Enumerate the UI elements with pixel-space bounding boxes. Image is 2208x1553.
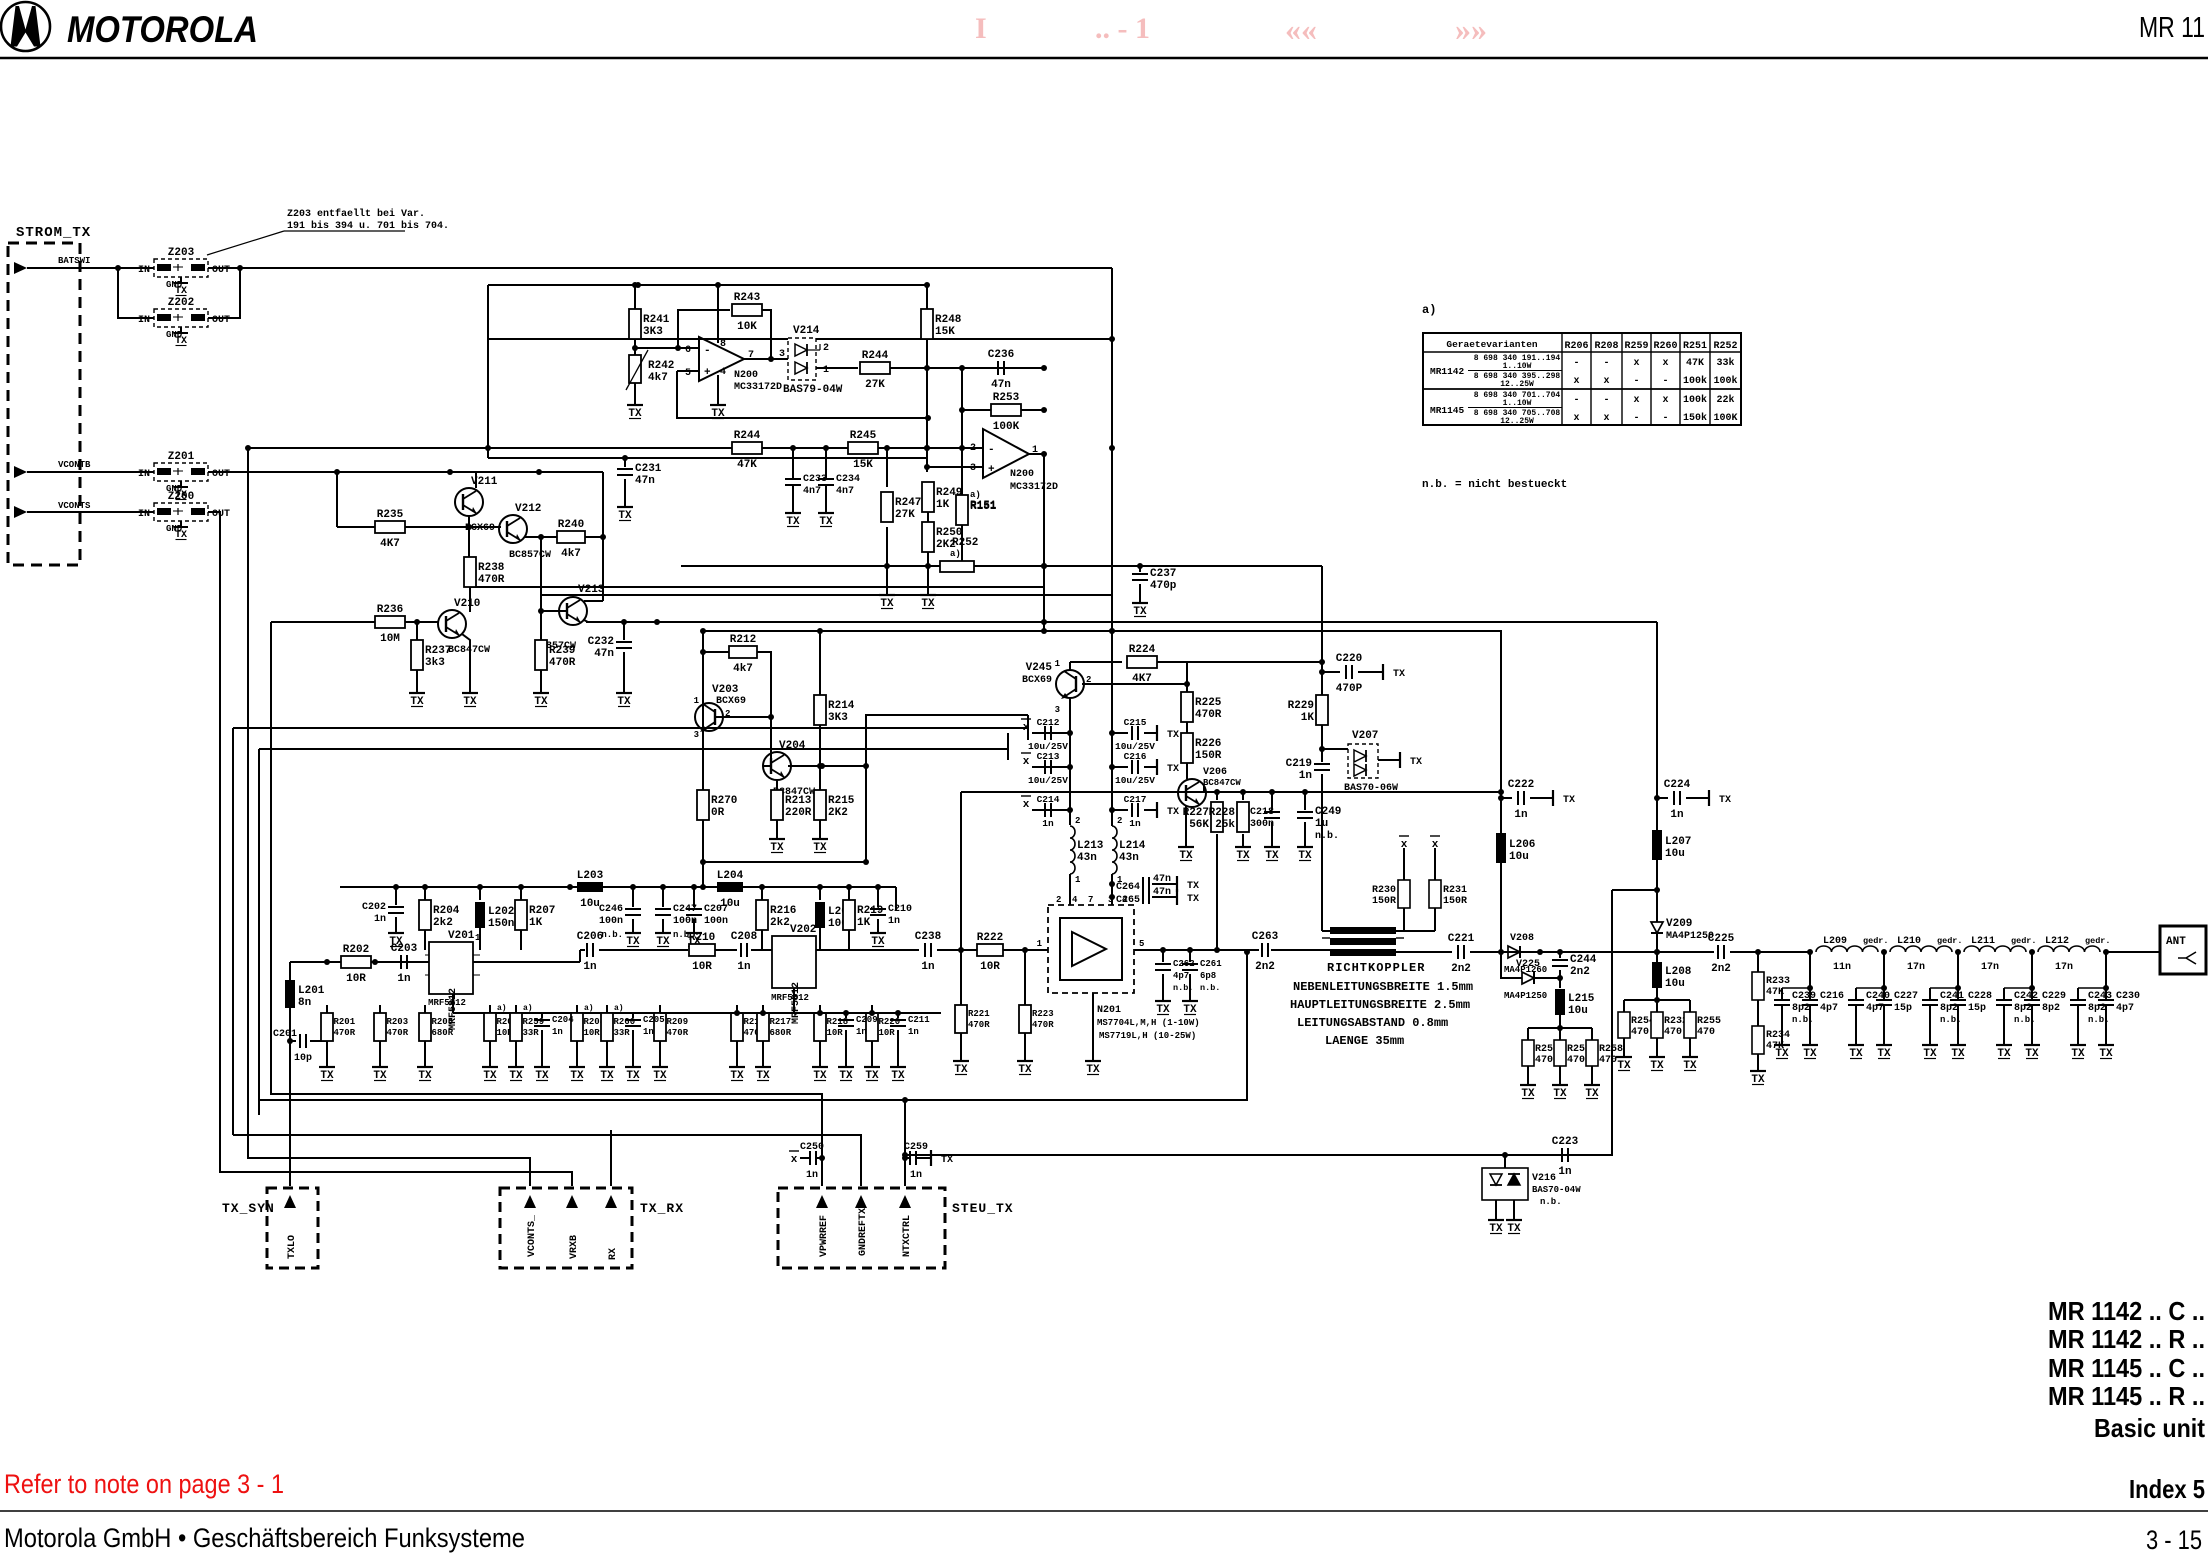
svg-text:««: ««: [1285, 11, 1317, 47]
resistor R206: [484, 1005, 518, 1062]
svg-text:L207: L207: [1665, 836, 1691, 848]
svg-text:4p7: 4p7: [1820, 1003, 1838, 1014]
wire R230 R231 bottom: [1403, 908, 1405, 931]
inductor L206: [1496, 833, 1535, 863]
svg-text:4p7: 4p7: [1173, 971, 1189, 981]
ground TX under R256: [1520, 1080, 1536, 1100]
ground TX right of C216: [1152, 759, 1179, 775]
svg-text:150R: 150R: [1195, 750, 1222, 762]
svg-text:470p: 470p: [1150, 580, 1177, 592]
svg-text:C230: C230: [2116, 991, 2140, 1002]
arrow TXLO: [284, 1195, 296, 1208]
svg-text:BATSWI: BATSWI: [58, 256, 90, 266]
svg-text:R253: R253: [993, 392, 1020, 404]
wire VCONTS in: [27, 511, 154, 513]
svg-text:R244: R244: [734, 430, 761, 442]
svg-text:R210: R210: [689, 932, 715, 944]
transistor V206: [1178, 767, 1241, 807]
resistor R254: [1618, 1000, 1655, 1052]
svg-text:R259: R259: [1624, 341, 1648, 352]
svg-text:TX_SYN: TX_SYN: [222, 1201, 275, 1216]
svg-text:V214: V214: [793, 325, 820, 337]
svg-text:a): a): [1422, 303, 1436, 317]
resistor R257: [1554, 1028, 1591, 1080]
wire Z202 out: [208, 268, 240, 318]
svg-text:R207: R207: [529, 905, 555, 917]
inductor L202: [475, 902, 514, 930]
svg-text:2: 2: [1117, 816, 1122, 826]
resistor R208: [571, 1005, 605, 1062]
svg-text:MC33172D: MC33172D: [1010, 482, 1058, 493]
svg-text:1: 1: [1055, 659, 1061, 669]
svg-text:x: x: [1603, 413, 1609, 424]
ground TX under R239: [533, 688, 549, 708]
wire V211 emitter: [468, 516, 470, 527]
wire R221 drop: [960, 950, 962, 1005]
wire C225 right: [1730, 951, 1810, 953]
svg-text:TX: TX: [941, 1155, 953, 1166]
wire VCONTB row: [208, 471, 603, 473]
svg-text:Z203 entfaellt bei Var.: Z203 entfaellt bei Var.: [287, 208, 425, 220]
wire R204 down: [424, 930, 426, 950]
svg-text:1n: 1n: [910, 1170, 922, 1181]
ground TX under C227: [1876, 1040, 1892, 1060]
wire V213 base drop: [540, 537, 542, 611]
svg-text:R208: R208: [1594, 341, 1618, 352]
svg-text:R222: R222: [977, 932, 1003, 944]
thermistor R242: [626, 348, 674, 400]
svg-text:C202: C202: [362, 902, 386, 913]
capacitor C225: [1708, 933, 1735, 975]
svg-text:OUT: OUT: [212, 315, 230, 326]
inductor L214: [1112, 826, 1146, 874]
svg-text:4: 4: [720, 367, 726, 378]
svg-text:MR 1142 .. R ..: MR 1142 .. R ..: [2048, 1324, 2205, 1354]
svg-text:10R: 10R: [827, 1028, 844, 1038]
hybrid transistor V201: [425, 930, 481, 1030]
capacitor C229: [2024, 988, 2066, 1040]
svg-text:4K7: 4K7: [1132, 673, 1152, 685]
wire R244a out: [890, 367, 1044, 369]
svg-text:R238: R238: [478, 562, 505, 574]
wire L201 down: [289, 1008, 291, 1041]
resistor R209: [654, 1005, 689, 1062]
svg-text:NEBENLEITUNGSBREITE 1.5mm: NEBENLEITUNGSBREITE 1.5mm: [1293, 980, 1473, 994]
resistor R255: [1684, 1000, 1721, 1052]
wire C238 right: [937, 949, 977, 951]
ground TX under C231: [617, 502, 633, 522]
svg-text:STEU_TX: STEU_TX: [952, 1201, 1014, 1216]
svg-text:Z200: Z200: [168, 491, 194, 503]
svg-text:V202: V202: [790, 924, 816, 936]
svg-text:n.b.: n.b.: [1315, 830, 1339, 842]
wire R224 right: [1157, 662, 1187, 684]
wire L213 down: [1069, 874, 1071, 900]
resistor R244: [860, 350, 890, 391]
capacitor C262: [1162, 950, 1164, 962]
wire R223 drop: [1024, 950, 1026, 1005]
wire R253 row: [962, 409, 991, 411]
ground TX under C228: [1950, 1040, 1966, 1060]
wire C215 gnd: [1144, 732, 1152, 734]
svg-text:C263: C263: [1252, 931, 1279, 943]
feedthrough filter Z201: [138, 451, 230, 494]
inductor L205: [819, 887, 821, 900]
svg-text:3 - 15: 3 - 15: [2146, 1525, 2202, 1553]
capacitor C238: [915, 931, 942, 973]
wire X1 stubs: [1403, 848, 1405, 880]
ground TX under R211: [729, 1062, 745, 1082]
wire R237 drop: [416, 622, 418, 640]
capacitor C216: [1802, 988, 1844, 1040]
resistor R211: [731, 1005, 766, 1062]
svg-text:C264: C264: [1116, 882, 1140, 893]
svg-text:TX: TX: [1167, 730, 1179, 741]
svg-text:1n: 1n: [888, 916, 900, 927]
svg-text:10p: 10p: [294, 1053, 312, 1064]
wire C224 row: [1657, 797, 1668, 799]
svg-text:BC857CW: BC857CW: [509, 550, 551, 561]
resistor R252: [940, 537, 978, 572]
wire C205 gnd: [632, 1030, 634, 1062]
resistor R218: [814, 1005, 848, 1062]
ground TX of Z201: [174, 484, 188, 501]
svg-text:1K: 1K: [529, 917, 543, 929]
svg-text:n.b. = nicht bestueckt: n.b. = nicht bestueckt: [1422, 479, 1567, 491]
svg-text:47n: 47n: [594, 648, 614, 660]
resistor R226: [1181, 733, 1222, 763]
svg-text:1n: 1n: [856, 1027, 867, 1037]
wire pin3 row: [928, 466, 983, 468]
resistor R201: [321, 1005, 356, 1062]
resistor R260: [601, 1005, 635, 1062]
wire pin4: [717, 375, 719, 400]
svg-text:12..25W: 12..25W: [1500, 380, 1534, 389]
inductor L204: [717, 870, 744, 910]
svg-text:TX: TX: [1719, 795, 1731, 806]
resistor R259: [510, 1005, 544, 1062]
wire bus NTXCTRL: [259, 1100, 905, 1186]
capacitor C214: [1037, 794, 1060, 829]
ground TX right of C265: [1172, 889, 1199, 905]
capacitor C206: [577, 931, 603, 973]
capacitor C201: [300, 1034, 306, 1048]
wire V207 right: [1378, 759, 1395, 761]
wire VCONTS bus: [208, 512, 572, 1186]
svg-text:MR1145: MR1145: [1430, 405, 1465, 416]
ground TX under V216 left: [1488, 1215, 1504, 1235]
svg-text:MRF5812: MRF5812: [428, 998, 466, 1008]
resistor R204: [419, 900, 460, 930]
resistor R247: [881, 492, 921, 522]
svg-text:n.b.: n.b.: [1200, 983, 1220, 993]
capacitor C249: [1297, 806, 1341, 830]
svg-text:x: x: [1023, 799, 1030, 811]
svg-text:BCX69: BCX69: [1022, 675, 1052, 686]
svg-text:R251: R251: [1683, 341, 1707, 352]
svg-text:100K: 100K: [1713, 413, 1737, 424]
wire R229 down: [1321, 725, 1323, 762]
resistor R202: [341, 944, 371, 985]
wire R204: [424, 887, 426, 900]
svg-text:VCONTS: VCONTS: [58, 501, 91, 511]
svg-text:C211: C211: [908, 1015, 930, 1025]
svg-text:R221: R221: [968, 1009, 990, 1019]
capacitor C240: [1848, 952, 1890, 1040]
test point at C214: [1021, 796, 1031, 811]
capacitor C209: [838, 1015, 878, 1037]
svg-text:MRF5812: MRF5812: [771, 993, 809, 1003]
capacitor C233: [785, 474, 827, 497]
wire V245 C215 column: [1111, 662, 1113, 826]
wire C236 right: [1010, 367, 1044, 369]
wire R238 drop: [468, 527, 470, 557]
capacitor C223: [1552, 1136, 1579, 1178]
svg-text:R241: R241: [643, 314, 670, 326]
capacitor C249 electrolytic: [1304, 792, 1306, 810]
svg-text:NTXCTRL: NTXCTRL: [902, 1215, 913, 1257]
capacitor C220: [1336, 653, 1363, 695]
ground TX under R220: [864, 1062, 880, 1082]
wire C221 right: [1470, 951, 1508, 953]
svg-text:C207: C207: [704, 904, 728, 915]
wire bus VPWRREF: [271, 622, 822, 1186]
svg-text:R247: R247: [895, 497, 921, 509]
svg-text:100k: 100k: [1713, 375, 1737, 387]
ground TX under C202: [388, 928, 404, 948]
wire C222 gnd: [1530, 797, 1548, 799]
STEU_TX box: [778, 1188, 1014, 1268]
resistor R238: [464, 557, 505, 587]
svg-text:10u: 10u: [1509, 851, 1529, 863]
svg-text:TX: TX: [1393, 669, 1405, 680]
ground TX under C246: [625, 928, 641, 948]
wire C261 gnd: [1189, 974, 1191, 996]
wire L215 down: [1559, 1015, 1561, 1028]
wire L207 down: [1656, 860, 1658, 890]
wire R244 R245 row: [248, 447, 983, 449]
wire V213 base wire: [541, 610, 567, 612]
wire pin5: [677, 370, 699, 372]
capacitor C262: [1155, 959, 1195, 981]
svg-text:R225: R225: [1195, 697, 1222, 709]
svg-text:100n: 100n: [599, 916, 623, 927]
wire C237 gnd: [1139, 584, 1141, 598]
svg-text:2n2: 2n2: [1570, 966, 1590, 978]
svg-text:a): a): [614, 1004, 624, 1013]
svg-text:R234: R234: [1766, 1030, 1790, 1041]
wire C218 gnd: [1271, 822, 1273, 842]
inductor L201: [289, 962, 291, 980]
wire C210 gnd: [877, 919, 879, 928]
svg-text:MR1142: MR1142: [1430, 366, 1465, 377]
capacitor C237 stub: [1139, 566, 1141, 572]
wire L202 down: [479, 928, 481, 950]
svg-text:150k: 150k: [1683, 412, 1707, 424]
wire x1044 drop: [1043, 454, 1045, 631]
svg-text:150n: 150n: [488, 918, 514, 930]
svg-text:VCONTS_: VCONTS_: [527, 1214, 538, 1257]
svg-text:1K: 1K: [857, 917, 871, 929]
TX_RX box: [500, 1188, 684, 1268]
svg-text:1n: 1n: [921, 961, 934, 973]
pin VCONTB: [58, 460, 91, 470]
svg-text:470R: 470R: [387, 1028, 409, 1038]
ground stub R250: [927, 566, 929, 590]
svg-text:C225: C225: [1708, 933, 1735, 945]
feedthrough filter Z202: [138, 297, 230, 340]
wire C219 down: [1321, 774, 1323, 931]
wire bus VCONTS_: [248, 448, 530, 1186]
arrow BATSWI: [14, 262, 27, 274]
svg-text:R258: R258: [1599, 1044, 1623, 1055]
variants table: [1422, 303, 1741, 426]
wire main vertical BATSWI feed: [1111, 268, 1113, 662]
svg-text:5: 5: [1139, 939, 1144, 949]
inductor L210: [1890, 936, 1963, 973]
wire N201 top pins: [1069, 900, 1071, 905]
svg-text:Geraetevarianten: Geraetevarianten: [1446, 339, 1538, 350]
wire R216 down: [761, 930, 763, 950]
ground TX under R247: [879, 590, 895, 610]
op-amp N200 first: [685, 337, 782, 393]
wire V208 out: [1540, 951, 1657, 953]
svg-text:-: -: [1662, 376, 1668, 387]
inductor L201: [285, 980, 325, 1009]
svg-text:R235: R235: [377, 509, 404, 521]
svg-text:3k3: 3k3: [425, 657, 445, 669]
capacitor C243: [2070, 952, 2112, 1040]
capacitor C265 row: [1109, 894, 1115, 900]
transistor V245 (mirrored): [1022, 659, 1091, 715]
ground TX under C229: [2024, 1040, 2040, 1060]
pin BATSWI: [58, 256, 90, 266]
svg-text:STROM_TX: STROM_TX: [16, 225, 91, 241]
wire R213 gnd: [776, 820, 778, 834]
capacitor C241: [1922, 952, 1964, 1040]
wire branch to Z202: [118, 268, 154, 318]
wire V210 row: [271, 621, 438, 623]
svg-text:V208: V208: [1510, 933, 1534, 944]
svg-text:TX: TX: [1187, 894, 1199, 905]
svg-text:27K: 27K: [895, 509, 915, 521]
resistor R258: [1586, 1028, 1623, 1080]
svg-text:»»: »»: [1455, 11, 1487, 47]
inductor L207: [1652, 830, 1691, 860]
svg-text:470R: 470R: [334, 1028, 356, 1038]
svg-text:Basic unit: Basic unit: [2094, 1413, 2205, 1443]
wire C265 gnd: [1152, 896, 1172, 898]
svg-text:3K3: 3K3: [643, 326, 663, 338]
svg-text:7: 7: [1088, 895, 1093, 905]
wire C246 gnd: [632, 919, 634, 928]
svg-text:C205: C205: [643, 1015, 665, 1025]
svg-text:C218: C218: [1250, 807, 1274, 818]
capacitor C250: [819, 1155, 825, 1161]
wire V211 base drop: [336, 472, 338, 527]
capacitor C230: [2098, 988, 2140, 1040]
svg-text:R240: R240: [558, 519, 584, 531]
Motorola logo (batwing in circle): [1, 2, 50, 51]
wire R248: [926, 285, 928, 309]
svg-text:470R: 470R: [549, 657, 576, 669]
arrow VCONTS: [14, 506, 27, 518]
svg-text:R260: R260: [1653, 341, 1677, 352]
svg-text:10u/25V: 10u/25V: [1115, 775, 1155, 786]
wire pin8: [717, 285, 719, 343]
svg-text:R224: R224: [1129, 644, 1156, 656]
inductor L215: [1555, 989, 1595, 1017]
svg-text:10M: 10M: [380, 633, 400, 645]
svg-text:C208: C208: [731, 931, 758, 943]
svg-text:R231: R231: [1443, 885, 1467, 896]
svg-text:IN: IN: [138, 469, 150, 480]
svg-text:15K: 15K: [935, 326, 955, 338]
wire R225 feed: [1186, 684, 1188, 692]
svg-text:100K: 100K: [993, 421, 1020, 433]
wire L208 down: [1656, 952, 1658, 962]
wire R244 row feed: [488, 338, 1112, 340]
svg-text:MC33172D: MC33172D: [734, 382, 782, 393]
wire C203 to V201: [413, 961, 429, 963]
svg-text:470R: 470R: [478, 574, 505, 586]
ground TX under C247: [655, 928, 671, 948]
capacitor C265: [1143, 890, 1149, 904]
svg-text:R233: R233: [1766, 976, 1790, 987]
svg-text:L206: L206: [1509, 839, 1535, 851]
wire V213 emitter: [584, 620, 588, 622]
wire L206 down: [1500, 863, 1502, 950]
svg-text:R245: R245: [850, 430, 877, 442]
marker a): [497, 1004, 507, 1013]
wire C224 gnd: [1686, 797, 1704, 799]
svg-text:3: 3: [694, 730, 699, 740]
svg-text:R270: R270: [711, 795, 737, 807]
svg-text:R228: R228: [1209, 807, 1236, 819]
capacitor C232: [588, 636, 632, 660]
svg-text:V212: V212: [515, 503, 541, 515]
model list: [2048, 1296, 2205, 1504]
wire C212 row: [1032, 732, 1070, 734]
resistor R207: [515, 900, 555, 930]
svg-text:TX: TX: [1187, 881, 1199, 892]
svg-text:-: -: [704, 345, 711, 357]
svg-text:R239: R239: [549, 645, 575, 657]
svg-text:2k2: 2k2: [433, 917, 453, 929]
resistor R224: [1127, 644, 1157, 685]
wire R219: [848, 887, 850, 900]
wire R241 feed: [634, 285, 636, 337]
arrow VPWRREF: [816, 1195, 828, 1208]
resistor R234: [1752, 1026, 1790, 1066]
svg-text:2: 2: [823, 343, 829, 354]
ground TX under R232: [1649, 1052, 1665, 1072]
note Z203 entfaellt: [207, 208, 449, 255]
wire opamp rail: [488, 284, 927, 286]
wire V216 gnds: [1495, 1200, 1497, 1215]
wire V204 base: [763, 765, 771, 767]
capacitor C246: [599, 904, 641, 927]
wire R224-R229 link: [1187, 661, 1322, 663]
svg-text:1: 1: [823, 365, 829, 376]
svg-text:1..10W: 1..10W: [1503, 399, 1532, 408]
transistor V213: [534, 584, 605, 652]
ground TX right of C222: [1548, 790, 1575, 806]
capacitor C237: [1132, 568, 1177, 592]
wire C206 right: [599, 949, 688, 951]
resistor R237: [411, 640, 451, 670]
wire V202 out: [816, 949, 919, 951]
